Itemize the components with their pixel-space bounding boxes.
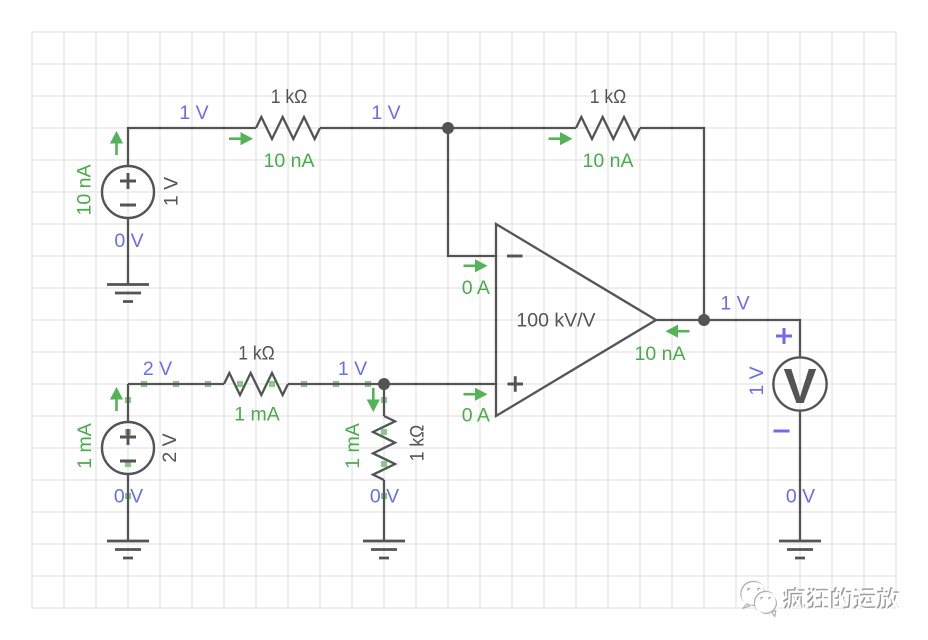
svg-text:1 V: 1 V — [720, 293, 749, 315]
svg-text:0 V: 0 V — [114, 230, 143, 252]
svg-text:100 kV/V: 100 kV/V — [516, 310, 595, 332]
svg-text:0 V: 0 V — [114, 486, 143, 508]
svg-text:1 kΩ: 1 kΩ — [271, 86, 308, 108]
svg-text:1 V: 1 V — [371, 102, 400, 124]
svg-text:0 A: 0 A — [462, 405, 490, 427]
svg-text:2 V: 2 V — [159, 433, 181, 462]
svg-text:0 V: 0 V — [370, 486, 399, 508]
svg-text:10 nA: 10 nA — [635, 343, 686, 365]
svg-text:10 nA: 10 nA — [264, 150, 315, 172]
svg-text:1 kΩ: 1 kΩ — [238, 343, 275, 365]
svg-text:1 V: 1 V — [161, 177, 183, 206]
svg-text:1 V: 1 V — [338, 358, 367, 380]
svg-text:10 nA: 10 nA — [583, 150, 634, 172]
svg-text:1 kΩ: 1 kΩ — [590, 86, 627, 108]
svg-text:1 mA: 1 mA — [74, 423, 96, 469]
svg-text:1 V: 1 V — [746, 366, 768, 395]
svg-text:2 V: 2 V — [143, 358, 172, 380]
svg-text:10 nA: 10 nA — [74, 165, 96, 216]
svg-text:1 mA: 1 mA — [342, 423, 364, 469]
svg-text:0 A: 0 A — [462, 277, 490, 299]
svg-text:1 mA: 1 mA — [234, 404, 280, 426]
svg-text:1 V: 1 V — [179, 102, 208, 124]
svg-text:1 kΩ: 1 kΩ — [407, 425, 429, 462]
svg-text:0 V: 0 V — [786, 486, 815, 508]
svg-text:V: V — [783, 359, 816, 414]
